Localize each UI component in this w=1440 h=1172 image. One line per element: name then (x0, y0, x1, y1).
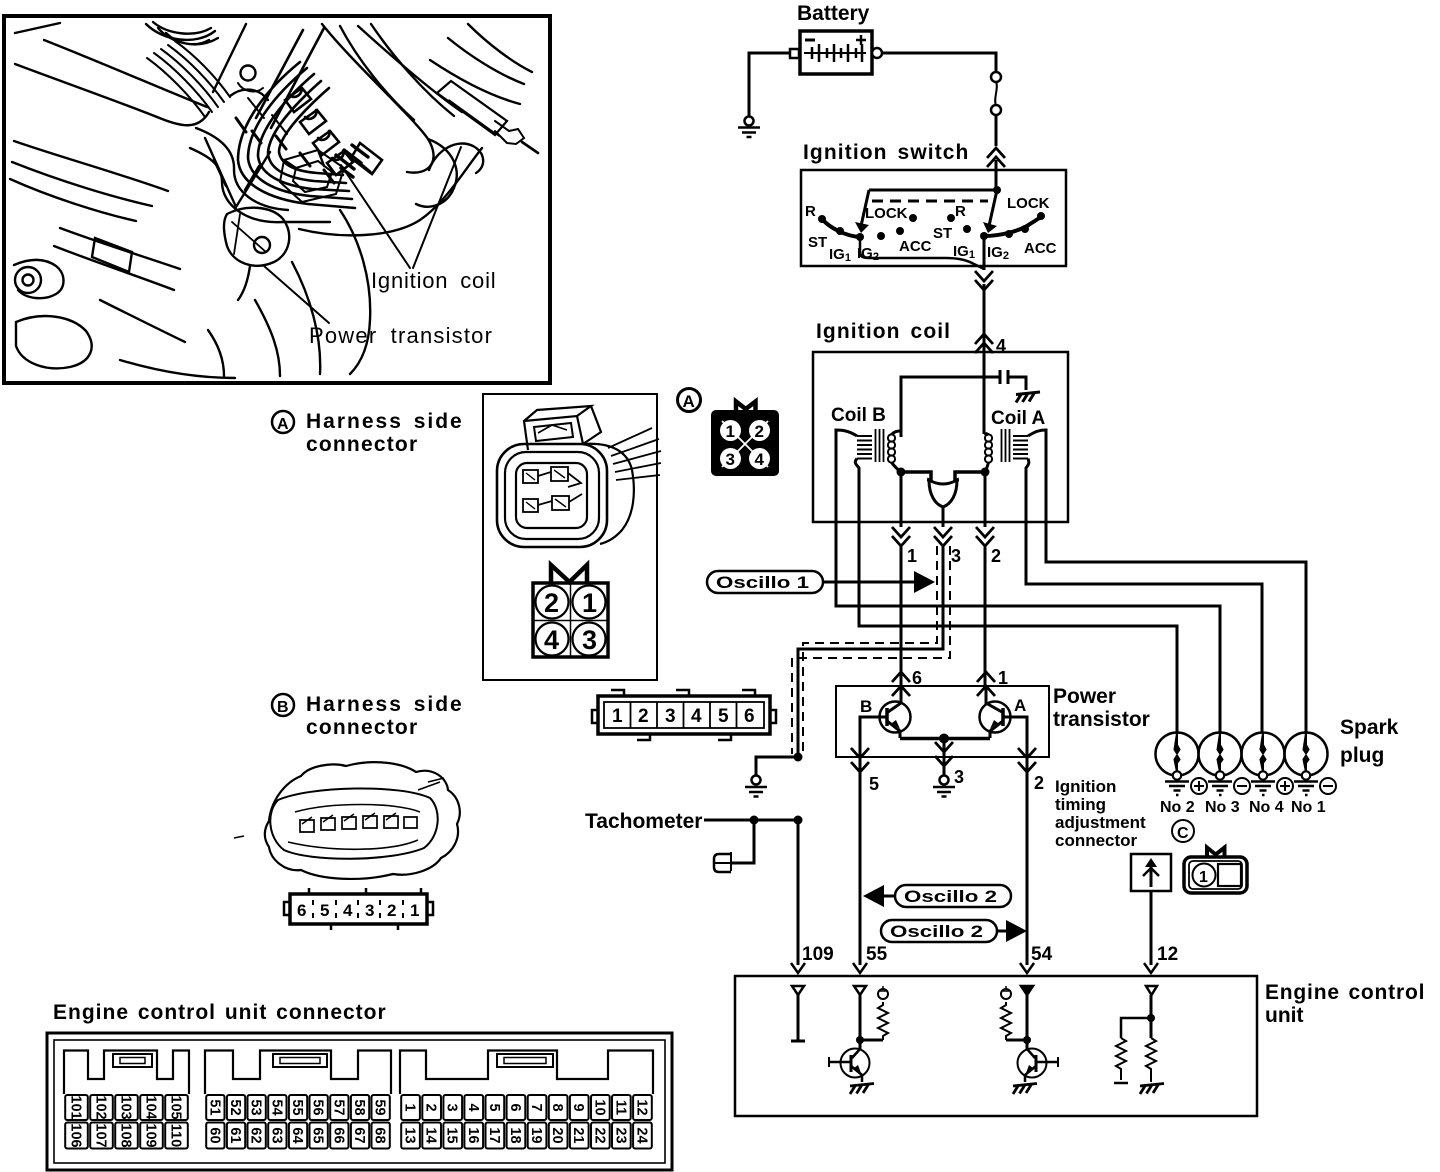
svg-text:2: 2 (991, 546, 1001, 566)
svg-text:3: 3 (951, 546, 961, 566)
coil A secondary leads (1028, 430, 1046, 522)
engine control unit box (735, 976, 1257, 1116)
svg-text:12: 12 (634, 1099, 650, 1115)
svg-text:5: 5 (718, 706, 729, 727)
svg-text:5: 5 (320, 901, 329, 920)
svg-text:106: 106 (68, 1123, 84, 1147)
polarity minus No3 (1234, 778, 1250, 794)
timing connector box (1131, 854, 1171, 891)
connector B pins (3d) (300, 816, 417, 832)
svg-text:2: 2 (638, 706, 649, 727)
wire battery positive (882, 53, 996, 71)
wire pin2 down to ecu 54 (1026, 757, 1029, 965)
svg-text:Ignition coil: Ignition coil (371, 268, 496, 293)
svg-text:4: 4 (343, 901, 353, 920)
dashed link (872, 200, 988, 203)
svg-text:2: 2 (387, 901, 396, 920)
chassis ground 55 (850, 1084, 874, 1095)
arrow inside timing box (1150, 866, 1153, 887)
power transistor bracket (224, 208, 289, 266)
svg-text:60: 60 (206, 1127, 222, 1143)
coil B primary winding loops (888, 434, 895, 441)
svg-text:105: 105 (168, 1095, 184, 1119)
svg-text:B: B (277, 699, 289, 716)
spark plug No2 (1156, 733, 1199, 796)
svg-text:104: 104 (143, 1095, 159, 1119)
connector A pins (3d) (523, 467, 582, 512)
battery minus sign (805, 39, 815, 42)
ecu connector group 1 shell (64, 1051, 189, 1095)
connector chevrons (up) pin 4 (975, 334, 993, 353)
wire IG1 output down (983, 236, 986, 332)
svg-text:3: 3 (365, 901, 374, 920)
svg-text:66: 66 (330, 1127, 346, 1143)
chevrons pin2 (down) (976, 527, 994, 546)
svg-text:1: 1 (726, 422, 735, 441)
svg-text:6: 6 (744, 706, 755, 727)
right switch contact arc (984, 217, 1041, 236)
svg-text:No 3: No 3 (1205, 799, 1240, 816)
svg-text:Power transistor: Power transistor (309, 323, 493, 348)
svg-text:19: 19 (528, 1127, 544, 1143)
svg-text:Harness side: Harness side (306, 410, 464, 433)
inline connector pair (991, 72, 1001, 115)
right switch labels (933, 195, 1057, 262)
svg-text:2: 2 (1034, 773, 1044, 793)
svg-text:3: 3 (582, 625, 597, 655)
svg-text:107: 107 (93, 1123, 109, 1147)
pullup resistor 55 (878, 1002, 888, 1040)
oscillo 2 lower pill (881, 920, 997, 942)
ground (battery) (738, 117, 760, 138)
shield junction node (794, 753, 803, 762)
svg-text:LOCK: LOCK (1007, 195, 1050, 212)
svg-text:1: 1 (582, 588, 597, 618)
head channel diagonals (256, 28, 324, 128)
oscillo 2 lower probe (997, 930, 1006, 933)
svg-text:22: 22 (591, 1127, 607, 1143)
transistor A base wire (1003, 717, 1027, 757)
HV wire coil A top to No1 plug (1046, 522, 1306, 733)
circled B (272, 694, 294, 716)
coil B secondary leads (836, 430, 857, 522)
ecu connector group 1 pins (65, 1095, 188, 1149)
svg-text:R: R (805, 203, 816, 220)
transformer coil B (857, 429, 895, 463)
svg-text:connector: connector (306, 716, 418, 739)
wire shield junction to pin 109 (797, 820, 800, 965)
valve cover body (10, 141, 168, 221)
HV wire coil A bottom to No4 plug (1026, 522, 1262, 733)
left switch labels (805, 203, 932, 264)
svg-text:63: 63 (268, 1127, 284, 1143)
chevrons pin3-pt (down) (935, 742, 953, 766)
wire to tach connector (732, 820, 754, 863)
svg-text:No 4: No 4 (1249, 799, 1284, 816)
wire timing connector to ecu pin12 (1150, 891, 1153, 965)
svg-text:3: 3 (954, 767, 964, 787)
breather boss (213, 24, 268, 100)
svg-text:9: 9 (570, 1103, 586, 1111)
svg-text:unit: unit (1265, 1004, 1303, 1027)
battery cells (804, 44, 866, 62)
wire left IG1 to output (860, 237, 984, 269)
node emitter junction (939, 734, 949, 744)
svg-text:timing: timing (1055, 795, 1106, 814)
svg-text:109: 109 (143, 1123, 159, 1147)
svg-text:Ignition: Ignition (1055, 777, 1116, 796)
ecu fork pin 12 (1144, 963, 1158, 973)
svg-text:Oscillo 1: Oscillo 1 (716, 573, 809, 592)
svg-text:Oscillo 2: Oscillo 2 (890, 922, 983, 941)
harness A box (483, 394, 657, 680)
chevrons pin5 (down) (851, 748, 869, 772)
connector A wires (608, 428, 661, 480)
svg-text:1: 1 (402, 1103, 418, 1111)
pin diagram A box (533, 583, 608, 657)
ecu pin55 input circuit (829, 986, 888, 1094)
pullup resistor 54 (1001, 1002, 1011, 1040)
battery right terminal (872, 48, 882, 58)
pin diagram A circles (536, 586, 606, 656)
svg-text:59: 59 (372, 1099, 388, 1115)
wire junction to pin3 ground (943, 739, 946, 776)
svg-text:108: 108 (118, 1123, 134, 1147)
svg-text:1: 1 (1199, 869, 1208, 886)
HV wire coil B bottom to No2 plug (859, 522, 1177, 733)
svg-text:51: 51 (206, 1099, 222, 1115)
svg-text:54: 54 (1031, 944, 1053, 965)
svg-text:No 2: No 2 (1160, 799, 1195, 816)
input transistor 54 (1018, 1049, 1047, 1078)
connector C icon (1184, 848, 1247, 894)
feed wire into coil (983, 332, 986, 434)
svg-text:110: 110 (168, 1124, 184, 1147)
block bottom contour (299, 148, 482, 235)
coil A primary leads (984, 432, 989, 436)
svg-text:Engine control unit connector: Engine control unit connector (53, 1001, 387, 1024)
svg-text:54: 54 (268, 1099, 284, 1115)
svg-text:4: 4 (755, 450, 765, 469)
transistor A (980, 686, 1011, 738)
lower engine mass (54, 228, 180, 290)
plug tower 2 (300, 110, 326, 134)
svg-text:101: 101 (68, 1095, 84, 1119)
svg-text:Oscillo 2: Oscillo 2 (904, 887, 997, 906)
ground (shield) (745, 776, 767, 797)
svg-text:6: 6 (912, 668, 922, 688)
svg-text:62: 62 (248, 1127, 264, 1143)
coil pack dark details (336, 145, 370, 177)
valve cover ribs (147, 41, 230, 117)
transistor B base wire (860, 717, 887, 757)
coil B core (876, 429, 884, 462)
svg-text:Power: Power (1053, 685, 1116, 708)
svg-text:4: 4 (544, 625, 559, 655)
ignition switch box (801, 170, 1066, 266)
svg-text:61: 61 (227, 1127, 243, 1143)
svg-text:6: 6 (507, 1103, 523, 1111)
svg-text:5: 5 (869, 774, 879, 794)
svg-text:Coil B: Coil B (831, 405, 886, 426)
svg-text:C: C (1177, 825, 1189, 842)
svg-text:ACC: ACC (1024, 240, 1057, 257)
connector B 3d illustration (234, 762, 460, 879)
svg-text:65: 65 (310, 1127, 326, 1143)
ignition timing adjustment connector label (1055, 777, 1146, 850)
svg-text:ACC: ACC (899, 238, 932, 255)
svg-text:20: 20 (549, 1127, 565, 1143)
wire junction to ground (756, 757, 798, 775)
plug tower 3 (313, 131, 339, 155)
diode gate symbol (929, 480, 957, 507)
svg-text:1: 1 (907, 546, 917, 566)
svg-text:IG1: IG1 (829, 246, 851, 264)
svg-text:55: 55 (866, 944, 888, 965)
divider resistor left (1116, 1038, 1126, 1080)
svg-text:7: 7 (528, 1103, 544, 1111)
ecu connector outer box (47, 1033, 672, 1170)
pin diagram A keyway (551, 565, 587, 583)
oscillo 1 pill (707, 571, 823, 593)
svg-text:55: 55 (289, 1099, 305, 1115)
svg-text:6: 6 (297, 901, 306, 920)
plug number labels (1160, 799, 1326, 816)
ecu connector group 3 pins (401, 1095, 652, 1149)
circled C (1172, 820, 1194, 842)
shield dashed inner (803, 546, 937, 752)
ecu connector group 2 pins (206, 1095, 390, 1149)
spark plug No4 (1242, 733, 1285, 796)
chevrons pin1-pt (up) (977, 672, 995, 696)
primary bus wire to coil B (901, 377, 984, 437)
pin strip B numbers (297, 901, 419, 920)
icon A (black connector face) (711, 402, 779, 477)
svg-text:connector: connector (1055, 831, 1138, 850)
svg-text:11: 11 (612, 1100, 628, 1115)
polarity plus No2 (1191, 778, 1207, 794)
ignition coil box (813, 352, 1068, 522)
ecu fork pin 55 (853, 963, 867, 973)
svg-text:IG2: IG2 (987, 244, 1009, 262)
ecu pin54 input circuit (1001, 986, 1058, 1094)
svg-text:1: 1 (612, 706, 623, 727)
left switch wiper arrow (861, 190, 869, 226)
svg-text:A: A (277, 416, 289, 433)
chevrons pin3 (down) (934, 527, 952, 546)
svg-text:adjustment: adjustment (1055, 813, 1146, 832)
svg-text:1: 1 (998, 668, 1008, 688)
left switch contact arc (822, 219, 860, 237)
coil A core (1002, 429, 1010, 462)
svg-text:LOCK: LOCK (865, 205, 908, 222)
cylinder head center (205, 138, 270, 207)
svg-text:3: 3 (665, 706, 676, 727)
HV wire coil B top to No3 plug (836, 522, 1220, 733)
svg-text:ST: ST (808, 234, 827, 251)
wire node to pin 2 (984, 472, 987, 522)
transformer coil A (985, 429, 1028, 463)
svg-text:plug: plug (1340, 744, 1384, 767)
battery left terminal (790, 49, 799, 58)
battery plus sign (856, 35, 866, 45)
node tach-2 (794, 816, 803, 825)
wire coil pin2 down (984, 522, 987, 686)
tach connector stub (714, 852, 731, 872)
polarity plus No4 (1277, 778, 1293, 794)
svg-text:3: 3 (444, 1103, 460, 1111)
svg-text:18: 18 (507, 1127, 523, 1143)
left switch contacts (818, 214, 917, 241)
chevrons pin6 (up) (892, 672, 910, 696)
shield dashed outer (792, 546, 950, 754)
connector A 3d illustration (497, 406, 661, 547)
svg-text:B: B (860, 697, 872, 716)
svg-text:53: 53 (248, 1099, 264, 1115)
battery box (800, 31, 872, 74)
svg-text:17: 17 (486, 1127, 502, 1143)
ecu fork pin 109 (791, 963, 805, 973)
right switch contacts (947, 212, 1045, 240)
wire node to pin 1 (900, 472, 903, 522)
ecu pin12 circuit (1114, 986, 1164, 1094)
ground (power transistor) (933, 776, 955, 797)
extra wire bundle arcs (190, 148, 330, 222)
connector chevrons (up) (987, 148, 1005, 167)
svg-text:12: 12 (1157, 944, 1178, 965)
svg-text:24: 24 (634, 1127, 650, 1143)
svg-text:57: 57 (330, 1099, 346, 1115)
svg-text:transistor: transistor (1053, 708, 1150, 731)
coil pack body (280, 150, 344, 202)
svg-text:1: 1 (410, 901, 419, 920)
svg-text:Battery: Battery (797, 2, 870, 25)
svg-text:14: 14 (423, 1127, 439, 1143)
svg-text:5: 5 (486, 1103, 502, 1111)
svg-text:68: 68 (372, 1127, 388, 1143)
wire coil pin3 (shielded) (798, 522, 943, 757)
chassis ground 12 (1140, 1084, 1164, 1095)
svg-text:21: 21 (570, 1127, 586, 1143)
circled A (272, 411, 294, 433)
emitter common wire (900, 737, 990, 741)
cam cap curves (146, 22, 215, 40)
svg-text:A: A (1014, 696, 1026, 715)
oscillo 2 upper pill (895, 885, 1011, 907)
svg-text:Spark: Spark (1340, 716, 1399, 739)
sump curves (255, 262, 320, 376)
svg-text:13: 13 (402, 1127, 418, 1143)
wire battery negative to ground (749, 53, 790, 116)
cam cover inner arcs (158, 28, 218, 44)
ignition coil leader lines (341, 147, 461, 268)
power transistor box (836, 686, 1049, 757)
svg-text:103: 103 (118, 1095, 134, 1119)
right switch wiper arrow (989, 190, 997, 226)
feed junction (993, 186, 1001, 194)
svg-text:Engine control: Engine control (1265, 981, 1425, 1004)
engine picture frame (4, 16, 550, 383)
svg-text:No 1: No 1 (1291, 799, 1326, 816)
fuel rail curve (430, 38, 524, 104)
svg-text:10: 10 (591, 1099, 607, 1115)
engine block right outline (322, 24, 434, 173)
svg-text:8: 8 (549, 1103, 565, 1111)
svg-text:A: A (683, 392, 695, 411)
engine hood diagonals (15, 23, 207, 107)
chassis ground 54 (1013, 1084, 1037, 1095)
coil B secondary winding bars (857, 436, 872, 459)
svg-text:Ignition coil: Ignition coil (816, 320, 951, 343)
pin strip B box (290, 894, 427, 924)
oscillo 2 upper probe (884, 895, 895, 898)
node tach-1 (750, 816, 759, 825)
ecu fork pin 54 (1020, 963, 1034, 973)
block upper curves (340, 24, 454, 120)
coil B primary leads (892, 431, 902, 435)
plug tower 1 (285, 88, 311, 112)
transistor B (880, 686, 911, 738)
injector bracket hook (429, 143, 483, 173)
plug wire bundle (238, 62, 355, 208)
svg-text:109: 109 (802, 944, 834, 965)
svg-text:67: 67 (351, 1127, 367, 1143)
injector body (437, 81, 507, 135)
ecu pin109 stub (791, 986, 805, 1041)
wire coil pin1 down (900, 522, 903, 686)
ecu connector group 3 shell (400, 1051, 653, 1095)
svg-text:52: 52 (227, 1099, 243, 1115)
svg-text:58: 58 (351, 1099, 367, 1115)
wire node A to gate (955, 472, 985, 481)
spark plug No1 (1285, 733, 1328, 796)
svg-text:4: 4 (465, 1103, 481, 1111)
svg-text:2: 2 (755, 422, 764, 441)
svg-text:connector: connector (306, 433, 418, 456)
svg-text:64: 64 (289, 1127, 305, 1143)
chevrons pin1 (down) (892, 527, 910, 546)
coil A secondary winding bars (1013, 436, 1028, 459)
oscillo 1 probe wire (823, 581, 914, 584)
plug tower 4 (327, 151, 353, 175)
svg-text:16: 16 (465, 1127, 481, 1143)
circled A (icon) (678, 389, 701, 412)
cover hatch details (236, 118, 334, 183)
svg-text:Tachometer: Tachometer (585, 810, 702, 833)
capacitor C (noise suppressor) (984, 370, 1026, 390)
ecu connector group 2 shell (205, 1051, 391, 1095)
feed bus wire (869, 170, 997, 190)
svg-text:102: 102 (93, 1095, 109, 1119)
input transistor 55 (841, 1049, 870, 1078)
svg-text:Ignition switch: Ignition switch (803, 141, 970, 164)
wire pin5 down to ecu 55 (859, 757, 862, 965)
svg-text:ST: ST (933, 225, 952, 242)
chassis ground (capacitor) (1016, 392, 1040, 403)
node: coil B primary low (897, 468, 906, 477)
chevrons pin2-pt (down) (1018, 748, 1036, 772)
svg-text:2: 2 (423, 1103, 439, 1111)
coil A primary winding loops (985, 434, 992, 441)
power transistor leader line (264, 266, 329, 323)
svg-text:23: 23 (612, 1127, 628, 1143)
connector chevrons (down) (975, 271, 993, 290)
oscillo 1 probe tip (914, 571, 935, 593)
svg-text:Harness side: Harness side (306, 693, 464, 716)
node: coil A primary low (981, 468, 990, 477)
spark plug No3 (1199, 733, 1242, 796)
divider resistor right (1146, 1038, 1156, 1082)
